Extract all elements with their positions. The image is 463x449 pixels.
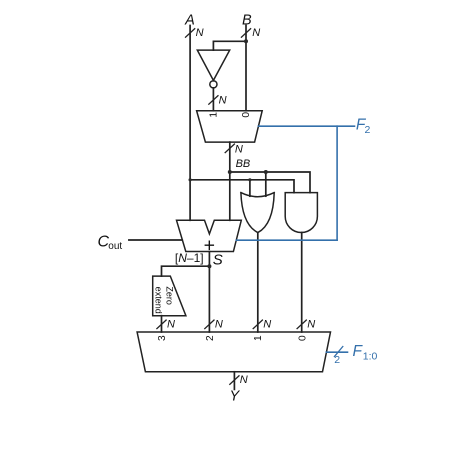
bus slash on mux input 1: [253, 320, 262, 329]
svg-text:2: 2: [365, 124, 371, 136]
junction BB rail at mux output: [228, 170, 232, 174]
svg-text:1: 1: [253, 335, 264, 341]
net F2 carry-in wire to adder: [236, 239, 337, 241]
wire BB rail to gates: [230, 172, 310, 193]
wire BB rail drop to OR input: [265, 172, 267, 196]
zero-extend text: [164, 286, 174, 305]
bus slash on inverter output: [209, 96, 218, 105]
and-gate G2: [285, 193, 317, 233]
svg-text:2: 2: [205, 335, 216, 341]
bus slash on BB: [225, 144, 234, 153]
svg-text:extend: extend: [154, 287, 164, 314]
label F2: [356, 117, 371, 137]
wire OR output to mux input 1: [257, 233, 259, 332]
wire A rail to gates: [190, 180, 294, 193]
bus width label N input 1: [263, 318, 271, 330]
bus slash on mux input 3: [157, 320, 166, 329]
label Y output: [229, 389, 240, 405]
svg-text:[N–1]: [N–1]: [175, 251, 204, 265]
svg-text:2: 2: [334, 354, 340, 366]
bus slash on F1:0: [334, 347, 342, 357]
bus slash on B: [241, 29, 250, 38]
wire Y mux output: [233, 372, 235, 390]
junction S branch: [207, 264, 211, 268]
svg-text:S: S: [213, 252, 223, 269]
junction A rail at A wire: [189, 178, 192, 181]
wire S adder sum output: [208, 252, 210, 333]
mux M2 port label 1: [253, 335, 264, 341]
bus slash on mux input 0: [297, 320, 306, 329]
bus width label N on Y: [240, 374, 248, 386]
net F2 select wire from mux: [258, 125, 354, 127]
svg-text:out: out: [108, 241, 122, 252]
label F1:0: [353, 343, 378, 363]
or-gate G1: [241, 193, 274, 233]
wire branch B to inverter input: [213, 41, 246, 50]
adder U2 trapezoid with carry notch: [177, 220, 242, 251]
inverter U1 bubble: [210, 81, 217, 88]
svg-text:1:0: 1:0: [363, 351, 378, 363]
mux M1 port label 0: [241, 112, 252, 118]
bus width label 2 on F1:0: [334, 354, 340, 366]
bus slash on mux input 2: [205, 320, 214, 329]
net F1:0 select stub: [326, 351, 347, 353]
svg-text:Zero: Zero: [164, 286, 174, 305]
wire A rail drop to OR input: [249, 180, 251, 196]
zero-extend block: [153, 276, 186, 316]
wire BB mux output: [229, 142, 231, 220]
svg-text:N: N: [307, 318, 315, 330]
label [N-1] slice: [175, 251, 204, 265]
junction on B branch: [244, 39, 248, 43]
bus width label N input 2: [215, 318, 223, 330]
wire zero-extend output to mux input 3: [161, 316, 163, 332]
bus slash on Y: [230, 376, 239, 385]
junction A rail at OR drop: [248, 178, 251, 181]
svg-text:N: N: [252, 27, 260, 39]
svg-text:N: N: [240, 374, 248, 386]
mux M2 port label 3: [157, 335, 168, 341]
mux M1 port label 1: [209, 112, 220, 118]
wire branch S to zero extend: [162, 266, 210, 276]
svg-text:N: N: [196, 27, 204, 39]
svg-text:B: B: [242, 13, 252, 29]
bus width label N input 0: [307, 318, 315, 330]
svg-text:N: N: [235, 144, 243, 156]
wire inverter output to mux: [212, 88, 214, 111]
svg-text:N: N: [219, 95, 227, 107]
bus width label N on B: [252, 27, 260, 39]
svg-text:1: 1: [209, 112, 220, 118]
svg-text:N: N: [167, 318, 175, 330]
net F2 vertical to carry-in: [336, 126, 338, 240]
mux M2 4:1 trapezoid: [137, 332, 330, 372]
mux M2 port label 0: [297, 335, 308, 341]
svg-text:N: N: [263, 318, 271, 330]
label S: [213, 252, 223, 269]
bus width label N on BB: [235, 144, 243, 156]
wire B vertical bus: [245, 26, 247, 111]
wire AND output to mux input 0: [301, 233, 303, 333]
bus slash on A: [186, 29, 195, 38]
bus width label N on inverter output: [219, 95, 227, 107]
bus width label N input 3: [167, 318, 175, 330]
bus width label N on A: [196, 27, 204, 39]
node A input label: [184, 13, 195, 29]
label Cout: [98, 234, 123, 252]
svg-text:3: 3: [157, 335, 168, 341]
wire A vertical bus: [189, 26, 191, 221]
junction BB rail at OR drop: [264, 170, 268, 174]
wire Cout from adder: [129, 239, 182, 241]
mux M1 2:1 trapezoid: [197, 111, 263, 142]
adder plus symbol: [204, 234, 215, 256]
svg-text:N: N: [215, 318, 223, 330]
svg-text:0: 0: [297, 335, 308, 341]
svg-text:0: 0: [241, 112, 252, 118]
node B input label: [242, 13, 252, 29]
mux M2 port label 2: [205, 335, 216, 341]
net label BB: [236, 158, 251, 170]
svg-text:Y: Y: [229, 389, 240, 405]
inverter U1 triangle: [197, 50, 229, 80]
svg-text:BB: BB: [236, 158, 251, 170]
